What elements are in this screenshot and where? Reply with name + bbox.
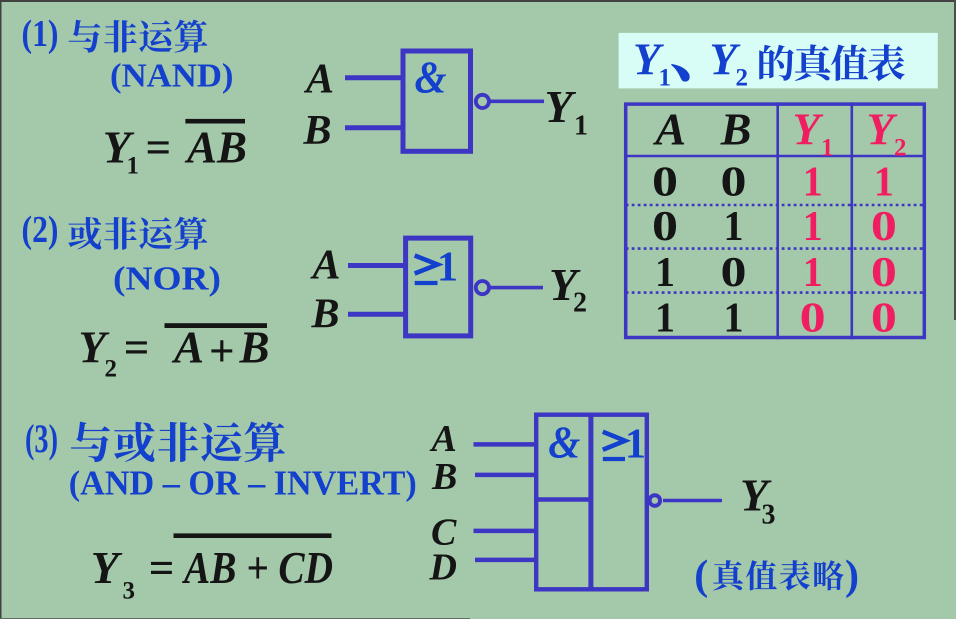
svg-text:(: ( bbox=[694, 553, 708, 599]
label (NOR) bbox=[113, 261, 221, 298]
svg-text:1: 1 bbox=[437, 245, 458, 291]
svg-text:(NOR): (NOR) bbox=[113, 261, 221, 298]
svg-text:Y: Y bbox=[793, 105, 824, 155]
svg-text:0: 0 bbox=[871, 250, 897, 296]
node A input label (NOR) bbox=[310, 243, 341, 289]
truth table header underline bbox=[624, 155, 926, 158]
label (AND-OR-INVERT) bbox=[69, 464, 417, 503]
wire NAND output to Y1 bbox=[490, 100, 544, 104]
svg-text:D: D bbox=[429, 547, 457, 589]
truth table dotted row divider 2 bbox=[626, 247, 925, 250]
svg-text:1: 1 bbox=[625, 422, 646, 468]
svg-text:2: 2 bbox=[573, 288, 587, 319]
node A input label (AOI) bbox=[430, 418, 457, 460]
node Y3 output label bbox=[740, 470, 776, 531]
AOI gate G3 label >=1 (OR section) bbox=[603, 422, 646, 468]
AOI gate G3 body bbox=[536, 415, 647, 590]
AOI gate G3 inversion bubble bbox=[650, 495, 661, 506]
truth table row 4: A=1 B=1 Y1=0 Y2=0 bbox=[655, 296, 897, 342]
wire NOR output to Y2 bbox=[490, 286, 543, 290]
svg-text:=: = bbox=[146, 123, 172, 173]
svg-text:(1): (1) bbox=[22, 13, 59, 55]
svg-text:B: B bbox=[431, 456, 457, 498]
svg-text:AB + CD: AB + CD bbox=[181, 543, 333, 593]
node B input label (NOR) bbox=[311, 292, 340, 338]
svg-text:1: 1 bbox=[574, 111, 588, 142]
truth table row 1: A=0 B=0 Y1=1 Y2=1 bbox=[652, 160, 894, 206]
AOI gate G3 internal divider vertical bbox=[588, 413, 593, 590]
NOR gate G2 label >=1 bbox=[415, 245, 458, 291]
node B input label (AOI) bbox=[431, 456, 457, 498]
wire A to NAND gate bbox=[345, 75, 403, 80]
node Y2 output label bbox=[549, 259, 587, 319]
svg-text:&: & bbox=[548, 418, 580, 468]
truth table dotted row divider 3 bbox=[626, 291, 925, 294]
svg-text:B: B bbox=[303, 108, 332, 154]
svg-text:3: 3 bbox=[762, 500, 776, 531]
svg-text:&: & bbox=[415, 53, 447, 103]
truth table column divider Y1|Y2 bbox=[850, 102, 853, 339]
svg-text:B: B bbox=[311, 292, 340, 338]
NOR gate G2 inversion bubble bbox=[476, 281, 489, 294]
svg-text:A: A bbox=[430, 418, 457, 460]
AOI gate G3 label & (AND section) bbox=[548, 418, 580, 468]
svg-text:0: 0 bbox=[800, 296, 826, 342]
svg-text:0: 0 bbox=[871, 204, 897, 250]
svg-text:=: = bbox=[149, 543, 175, 593]
wire A to NOR gate bbox=[348, 263, 406, 268]
svg-text:0: 0 bbox=[871, 296, 897, 342]
formula Y3 = AB+CD-bar bbox=[91, 533, 333, 604]
wire AOI output to Y3 bbox=[663, 499, 722, 503]
label (NAND) bbox=[110, 58, 234, 95]
wire C to AOI gate bbox=[474, 529, 537, 534]
wire B to NOR gate bbox=[348, 312, 406, 317]
truth table dotted row divider 1 bbox=[626, 204, 925, 207]
svg-text:(AND – OR – INVERT): (AND – OR – INVERT) bbox=[69, 464, 417, 503]
svg-text:1: 1 bbox=[724, 204, 744, 250]
svg-text:Y: Y bbox=[867, 105, 898, 155]
NAND gate G1 label & bbox=[415, 53, 447, 103]
svg-text:A: A bbox=[652, 104, 686, 155]
svg-text:A: A bbox=[303, 57, 334, 103]
truth table header A B bbox=[652, 104, 751, 155]
wire A to AOI gate bbox=[474, 442, 537, 447]
svg-text:+: + bbox=[209, 326, 235, 376]
truth table title text Y1, Y2 truth table bbox=[633, 35, 905, 92]
svg-text:2: 2 bbox=[736, 65, 749, 92]
svg-text:3: 3 bbox=[123, 578, 136, 605]
svg-text:Y: Y bbox=[91, 542, 123, 593]
svg-text:1: 1 bbox=[821, 135, 834, 162]
truth table title box bbox=[619, 33, 938, 89]
formula Y2 = A+B-bar bbox=[79, 323, 270, 383]
truth table header Y2 bbox=[867, 105, 907, 162]
truth table column divider B|Y1 bbox=[776, 102, 779, 339]
svg-text:0: 0 bbox=[721, 250, 747, 296]
AOI gate G3 internal divider horizontal bbox=[534, 497, 591, 501]
svg-text:2: 2 bbox=[105, 356, 118, 383]
svg-text:0: 0 bbox=[721, 160, 747, 206]
truth table row 3: A=1 B=0 Y1=1 Y2=0 bbox=[655, 250, 897, 296]
svg-text:0: 0 bbox=[652, 160, 678, 206]
svg-text:1: 1 bbox=[127, 153, 140, 180]
NAND gate G1 body bbox=[403, 51, 471, 151]
heading (3) AND-OR-INVERT operation bbox=[25, 416, 285, 462]
wire B to AOI gate bbox=[475, 473, 536, 478]
truth table outer frame bbox=[626, 104, 925, 337]
svg-text:=: = bbox=[124, 323, 150, 373]
svg-text:B: B bbox=[239, 323, 270, 373]
heading (2) NOR operation bbox=[22, 209, 208, 251]
svg-text:1: 1 bbox=[803, 204, 823, 250]
node A input label (NAND) bbox=[303, 57, 334, 103]
heading (1) NAND operation bbox=[22, 13, 208, 55]
svg-text:): ) bbox=[845, 553, 859, 599]
svg-text:1: 1 bbox=[655, 296, 675, 342]
formula Y1 = AB-bar bbox=[103, 119, 247, 180]
svg-text:1: 1 bbox=[803, 160, 823, 206]
svg-text:1: 1 bbox=[659, 65, 672, 92]
NAND gate G1 inversion bubble bbox=[476, 95, 489, 108]
svg-text:(2): (2) bbox=[22, 209, 59, 251]
svg-text:AB: AB bbox=[184, 123, 247, 173]
truth table row 2: A=0 B=1 Y1=1 Y2=0 bbox=[652, 204, 897, 250]
svg-text:A: A bbox=[171, 323, 204, 373]
svg-text:1: 1 bbox=[655, 250, 675, 296]
node C input label (AOI) bbox=[431, 512, 457, 554]
node B input label (NAND) bbox=[303, 108, 332, 154]
svg-text:1: 1 bbox=[803, 250, 823, 296]
svg-text:0: 0 bbox=[652, 204, 678, 250]
truth table header Y1 bbox=[793, 105, 834, 162]
svg-text:B: B bbox=[720, 104, 752, 155]
svg-text:(3): (3) bbox=[25, 416, 58, 461]
svg-text:1: 1 bbox=[874, 160, 894, 206]
NOR gate G2 body bbox=[406, 238, 471, 336]
svg-text:2: 2 bbox=[894, 135, 907, 162]
wire D to AOI gate bbox=[475, 558, 536, 563]
node Y1 output label bbox=[545, 81, 589, 142]
svg-text:(NAND): (NAND) bbox=[110, 58, 234, 95]
note (truth table omitted) bbox=[694, 553, 859, 599]
node D input label (AOI) bbox=[429, 547, 457, 589]
svg-text:Y: Y bbox=[545, 81, 577, 132]
svg-text:1: 1 bbox=[724, 296, 744, 342]
svg-text:A: A bbox=[310, 243, 341, 289]
wire B to NAND gate bbox=[345, 125, 403, 130]
